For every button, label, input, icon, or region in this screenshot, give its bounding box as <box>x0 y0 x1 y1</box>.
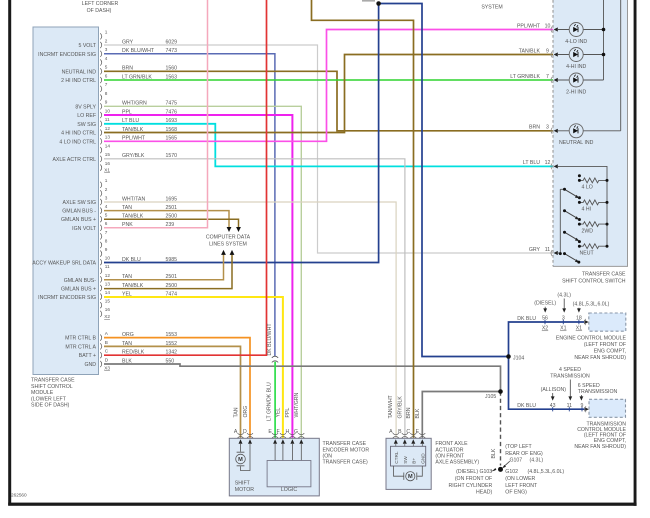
svg-text:SHIFT: SHIFT <box>235 480 251 486</box>
svg-text:ENGINE CONTROL MODULE: ENGINE CONTROL MODULE <box>556 336 627 342</box>
svg-text:4: 4 <box>105 204 108 209</box>
svg-text:PPL: PPL <box>285 408 291 418</box>
cut-off label at top left: (behind) LEFT CORNER OF DASH <box>82 1 119 14</box>
svg-text:16: 16 <box>105 307 111 312</box>
svg-text:A: A <box>389 429 393 435</box>
svg-text:MTR CTRL A: MTR CTRL A <box>65 344 96 350</box>
node J104 <box>506 354 511 359</box>
svg-text:8: 8 <box>105 91 108 96</box>
shift motor symbol <box>236 452 246 466</box>
svg-text:4: 4 <box>105 56 108 61</box>
svg-text:NEAR FAN SHROUD): NEAR FAN SHROUD) <box>574 355 626 361</box>
svg-text:(4.8L,5.3L,6.0L): (4.8L,5.3L,6.0L) <box>573 302 610 308</box>
wire TAN 2501 X2 pin12 to data link arrow <box>104 255 224 280</box>
wire TAN/BLK 2500 X2 pin5 to data link arrow <box>104 219 239 227</box>
wire BLK 550 X3 pinD to J105 <box>104 364 501 392</box>
svg-text:SW SIG: SW SIG <box>77 122 96 128</box>
rotary switch assembly <box>558 166 607 253</box>
svg-text:9: 9 <box>546 48 549 54</box>
svg-text:262560: 262560 <box>11 493 27 498</box>
wire DK BLU top run to J104 <box>379 4 509 357</box>
svg-text:2WD: 2WD <box>582 228 594 234</box>
svg-text:(LOWER LEFT: (LOWER LEFT <box>31 396 67 402</box>
indicator lamp 4-HI IND <box>566 48 586 70</box>
indicator lamp 2-HI IND <box>566 73 586 95</box>
svg-text:ORG: ORG <box>243 406 249 418</box>
svg-text:4 LO IND CTRL: 4 LO IND CTRL <box>59 139 96 145</box>
svg-text:3: 3 <box>105 47 108 52</box>
wire TAN/BLK 1568 pin12 to switch pin9 <box>104 55 553 133</box>
svg-text:E: E <box>416 429 420 435</box>
svg-text:GRY: GRY <box>529 247 541 253</box>
svg-text:IGN VOLT: IGN VOLT <box>72 226 97 232</box>
svg-text:D: D <box>243 429 247 435</box>
svg-text:REAR OF ENG): REAR OF ENG) <box>505 451 543 457</box>
svg-text:10: 10 <box>545 23 551 29</box>
svg-text:X2: X2 <box>104 314 110 319</box>
encoder motor pin letters <box>234 429 298 435</box>
svg-text:X3: X3 <box>104 365 110 370</box>
svg-text:5: 5 <box>105 65 108 70</box>
svg-text:GMLAN BUS +: GMLAN BUS + <box>61 217 96 223</box>
encoder motor entry arrows <box>239 439 304 443</box>
svg-text:ACTUATOR: ACTUATOR <box>435 447 463 453</box>
resistor 4 LO <box>578 174 609 190</box>
svg-text:4 HI: 4 HI <box>582 207 592 213</box>
module connector pin brackets and numbers <box>100 33 101 367</box>
switch side wire labels <box>510 23 550 253</box>
svg-text:TRANSFER CASE): TRANSFER CASE) <box>323 460 369 466</box>
svg-text:TRANSFER CASE: TRANSFER CASE <box>31 378 75 384</box>
wire BLK J105 to front axle actuator pin E <box>422 392 500 438</box>
svg-text:10: 10 <box>105 256 111 261</box>
svg-text:SHIFT CONTROL: SHIFT CONTROL <box>31 384 73 390</box>
svg-text:15: 15 <box>105 299 111 304</box>
actuator inner connector block <box>391 446 426 466</box>
svg-text:14: 14 <box>105 144 111 149</box>
svg-text:9: 9 <box>105 100 108 105</box>
svg-text:12: 12 <box>545 160 551 166</box>
svg-text:GND: GND <box>84 362 96 368</box>
vertical wire labels <box>233 323 497 459</box>
svg-text:7: 7 <box>105 82 108 87</box>
wire BLK dashed J105 to ground <box>500 392 502 466</box>
svg-text:LEFT FRONT: LEFT FRONT <box>505 483 538 489</box>
svg-text:X1: X1 <box>560 326 566 332</box>
svg-text:7: 7 <box>105 230 108 235</box>
svg-text:TAN: TAN <box>233 407 239 417</box>
wire WHT/GRN 7475 pin9 to encoder motor pin G <box>104 106 301 438</box>
svg-text:2: 2 <box>105 38 108 43</box>
front axle actuator entry arrows <box>394 439 425 443</box>
wire DK BLU J104 to engine control module <box>509 322 586 357</box>
svg-text:(4.8L,5.3L,6.0L): (4.8L,5.3L,6.0L) <box>528 469 565 475</box>
wire TAN 2501 X2 pin4 to data link arrow <box>104 211 229 228</box>
ground node G103/G102 dot <box>498 467 503 472</box>
node J105 <box>498 389 503 394</box>
svg-text:MODULE: MODULE <box>31 390 54 396</box>
wire GRY/BLK 1570 pin15 to front axle actuator pin B <box>104 159 405 438</box>
svg-text:FRONT AXLE: FRONT AXLE <box>435 441 468 447</box>
wire WHT/TAN 1695 X2 pin3 to front axle actuator pin A <box>104 202 396 438</box>
svg-text:9: 9 <box>105 247 108 252</box>
encoder motor internal leads <box>241 443 302 471</box>
svg-text:J104: J104 <box>513 355 524 361</box>
wire RED/BLK 1342 X3 pinC up to top cut <box>104 0 267 355</box>
svg-text:(ON LOWER: (ON LOWER <box>505 476 535 482</box>
svg-text:11: 11 <box>105 264 110 269</box>
svg-text:BLK: BLK <box>415 408 421 418</box>
svg-text:NEUTRAL IND: NEUTRAL IND <box>62 69 97 75</box>
svg-text:BLK: BLK <box>491 448 497 458</box>
wire TAN 1552 X3 pinB to encoder motor pin A <box>104 346 241 438</box>
wire colour labels and circuit numbers <box>122 39 177 364</box>
svg-text:G107: G107 <box>510 458 523 464</box>
TCM pin numbers <box>550 403 584 409</box>
svg-text:MOTOR: MOTOR <box>235 487 254 493</box>
svg-text:C: C <box>105 349 109 354</box>
svg-text:YEL: YEL <box>276 408 282 418</box>
svg-text:TRANSMISSION: TRANSMISSION <box>578 389 618 395</box>
svg-text:10: 10 <box>105 108 111 113</box>
svg-text:6 SPEED: 6 SPEED <box>578 383 600 389</box>
svg-text:M: M <box>238 457 243 463</box>
svg-text:NEUTRAL IND: NEUTRAL IND <box>559 140 594 146</box>
svg-text:1: 1 <box>105 30 108 35</box>
switch blade arrowheads <box>575 195 579 263</box>
svg-text:E: E <box>268 429 272 435</box>
svg-text:OF ENG): OF ENG) <box>505 490 527 496</box>
svg-text:LINES SYSTEM: LINES SYSTEM <box>209 241 247 247</box>
svg-text:6: 6 <box>105 221 108 226</box>
svg-text:1: 1 <box>105 178 108 183</box>
svg-text:14: 14 <box>105 290 111 295</box>
svg-text:NEAR FAN SHROUD): NEAR FAN SHROUD) <box>574 444 626 450</box>
svg-text:AXLE ASSEMBLY): AXLE ASSEMBLY) <box>435 460 479 466</box>
logic box <box>267 461 311 487</box>
svg-text:TRANSMISSION: TRANSMISSION <box>550 374 590 380</box>
svg-text:B: B <box>105 340 108 345</box>
svg-text:(ON FRONT OF: (ON FRONT OF <box>455 476 492 482</box>
svg-text:D: D <box>105 357 109 362</box>
svg-text:AXLE ACTR CTRL: AXLE ACTR CTRL <box>52 157 96 163</box>
svg-text:TAN/WHT: TAN/WHT <box>388 394 394 418</box>
switch blades <box>565 189 579 262</box>
svg-text:CTRL: CTRL <box>394 451 399 464</box>
svg-text:INCRMT ENCODER SIG: INCRMT ENCODER SIG <box>38 52 96 58</box>
cut text fragment above DK BLU junction <box>362 0 375 2</box>
resistor 2WD <box>578 218 609 234</box>
svg-text:GMLAN BUS -: GMLAN BUS - <box>62 209 96 215</box>
transfer case encoder motor box <box>229 438 369 496</box>
svg-text:X1: X1 <box>104 167 110 172</box>
svg-text:COMPUTER DATA: COMPUTER DATA <box>206 235 251 241</box>
front axle actuator box <box>386 438 479 489</box>
module name label below box <box>31 378 75 409</box>
svg-text:5 VOLT: 5 VOLT <box>79 43 97 49</box>
svg-text:X2: X2 <box>542 326 548 332</box>
wire TAN/BLK 2500 X2 pin13 to data link arrow <box>104 255 232 289</box>
svg-text:2-HI IND: 2-HI IND <box>566 89 586 95</box>
wire DK BLU J104 to transmission control module <box>509 357 586 410</box>
svg-text:4-HI IND: 4-HI IND <box>566 64 586 70</box>
svg-text:5: 5 <box>105 213 108 218</box>
svg-text:NEUT: NEUT <box>580 251 595 257</box>
svg-text:BATT +: BATT + <box>79 353 96 359</box>
svg-text:(DIESEL) G103: (DIESEL) G103 <box>456 469 492 475</box>
ECM pin numbers <box>542 316 582 332</box>
svg-text:4-LO IND: 4-LO IND <box>565 39 587 45</box>
ground arrow from G107 <box>504 461 510 466</box>
svg-text:(ON FRONT: (ON FRONT <box>435 453 465 459</box>
svg-text:3: 3 <box>546 125 549 131</box>
wire PPL/WHT 1565 pin13 to switch pin10 <box>104 30 553 142</box>
svg-text:2: 2 <box>105 187 108 192</box>
svg-text:(4.3L): (4.3L) <box>557 293 571 299</box>
svg-text:6: 6 <box>105 73 108 78</box>
svg-text:15: 15 <box>105 152 111 157</box>
svg-text:BRN: BRN <box>529 125 540 131</box>
svg-text:RIGHT CYLINDER: RIGHT CYLINDER <box>448 483 492 489</box>
ground arrow from G103 <box>493 468 497 471</box>
svg-text:A: A <box>234 429 238 435</box>
wire LT GRN/BLK 1563 pin6 to switch pin7 <box>104 79 553 81</box>
wire BRN feed from top cut to front axle actuator pin C <box>312 0 414 438</box>
svg-text:(ALLISON): (ALLISON) <box>541 387 567 393</box>
svg-text:B: B <box>398 429 402 435</box>
wire DK BLU 5985 X2 pin10 accy wakeup srl data <box>104 4 379 263</box>
svg-text:LO REF: LO REF <box>77 113 96 119</box>
svg-text:4 LO: 4 LO <box>582 185 593 191</box>
svg-text:GMLAN BUS-: GMLAN BUS- <box>64 278 97 284</box>
resistor NEUT <box>578 240 609 256</box>
svg-text:LOGIC: LOGIC <box>281 487 297 493</box>
svg-text:LT GRN/DK BLU: LT GRN/DK BLU <box>267 382 273 421</box>
svg-text:GMLAN BUS +: GMLAN BUS + <box>61 287 96 293</box>
svg-text:DK BLU: DK BLU <box>517 403 536 409</box>
svg-text:J105: J105 <box>485 394 496 400</box>
svg-text:GND: GND <box>421 453 426 464</box>
wire LT BLU 1693 pin11 to switch pin12 <box>104 124 553 167</box>
svg-text:TRANSFER CASE: TRANSFER CASE <box>582 272 626 278</box>
svg-text:M: M <box>408 474 413 480</box>
svg-text:SIDE OF DASH): SIDE OF DASH) <box>31 403 70 409</box>
svg-text:GRY/BLK: GRY/BLK <box>397 396 403 419</box>
svg-text:G102: G102 <box>505 469 518 475</box>
svg-text:PPL/WHT: PPL/WHT <box>517 23 541 29</box>
svg-text:8: 8 <box>105 238 108 243</box>
wire PPL 7476 pin10 to encoder motor pin H <box>104 115 292 438</box>
front axle actuator pin letters <box>389 429 420 435</box>
front axle actuator connector arcs <box>393 433 426 438</box>
transfer case shift control switch box <box>553 0 628 284</box>
svg-text:(4.3L): (4.3L) <box>530 458 544 464</box>
wire PNK 239 X2 pin6 up to top cut <box>104 0 208 228</box>
wire YEL 7474 X2 pin14 to encoder motor pin F <box>104 297 283 438</box>
wire GRY 6029 pin2 to switch pin11 <box>104 45 553 253</box>
svg-text:3: 3 <box>105 195 108 200</box>
svg-text:TAN/BLK: TAN/BLK <box>519 48 541 54</box>
indicator lamp NEUTRAL IND <box>559 124 594 146</box>
wire ORG 1553 X3 pinA to encoder motor pin D <box>104 338 250 438</box>
svg-text:H: H <box>285 429 289 435</box>
svg-text:ACCY WAKEUP SRL DATA: ACCY WAKEUP SRL DATA <box>32 261 96 267</box>
svg-text:11: 11 <box>545 247 550 253</box>
svg-text:X1: X1 <box>576 326 582 332</box>
engine control module box <box>556 313 627 361</box>
ECM entry arrow <box>584 320 588 324</box>
svg-text:12: 12 <box>105 126 111 131</box>
indicator lamp wires and symbols <box>558 0 621 131</box>
svg-text:TRANSFER CASE: TRANSFER CASE <box>323 441 367 447</box>
svg-text:2 HI IND CTRL: 2 HI IND CTRL <box>61 78 96 84</box>
svg-text:LT BLU: LT BLU <box>523 160 540 166</box>
svg-text:(DIESEL): (DIESEL) <box>534 301 556 307</box>
svg-text:LT GRN/BLK: LT GRN/BLK <box>510 74 540 80</box>
svg-text:AXLE SW SIG: AXLE SW SIG <box>63 200 96 206</box>
svg-text:OF DASH): OF DASH) <box>87 8 112 14</box>
wire BRN 1560 pin5 to neutral ind <box>104 71 553 131</box>
wire DK BLU/WHT 7473 pin3 down to inline connector <box>104 54 275 356</box>
wire LT GRN/DK BLU below inline connector to encoder motor pin E <box>274 362 276 438</box>
TCM entry arrow <box>584 407 588 411</box>
svg-text:13: 13 <box>105 281 111 286</box>
inline connector symbol on encoder sig wire <box>272 356 278 362</box>
svg-text:INCRMT ENCODER SIG: INCRMT ENCODER SIG <box>38 295 96 301</box>
encoder motor connector arcs <box>238 433 305 438</box>
computer data lines system label and arrows <box>206 227 251 255</box>
transmission control module box <box>574 399 626 450</box>
svg-text:MTR CTRL B: MTR CTRL B <box>65 336 96 342</box>
transfer case shift control module box <box>32 27 98 375</box>
svg-text:DK BLU: DK BLU <box>517 316 536 322</box>
svg-text:13: 13 <box>105 135 111 140</box>
svg-text:HEAD): HEAD) <box>476 490 492 496</box>
svg-text:DK BLU/WHT: DK BLU/WHT <box>267 323 273 356</box>
svg-text:12: 12 <box>105 273 111 278</box>
actuator motor symbol <box>394 466 423 481</box>
svg-text:4 HI IND CTRL: 4 HI IND CTRL <box>61 131 96 137</box>
svg-text:WHT/GRN: WHT/GRN <box>294 392 300 417</box>
svg-text:(ON: (ON <box>323 453 333 459</box>
svg-text:B+: B+ <box>412 458 417 464</box>
indicator lamp 4-LO IND <box>565 23 587 45</box>
resistor 4 HI <box>578 196 609 212</box>
svg-text:SW: SW <box>403 456 408 464</box>
svg-text:11: 11 <box>105 117 110 122</box>
svg-text:(LEFT FRONT OF: (LEFT FRONT OF <box>584 342 626 348</box>
svg-text:LEFT CORNER: LEFT CORNER <box>82 1 119 7</box>
svg-text:SHIFT CONTROL SWITCH: SHIFT CONTROL SWITCH <box>562 278 626 284</box>
svg-text:4 SPEED: 4 SPEED <box>559 367 581 373</box>
svg-text:ENCODER MOTOR: ENCODER MOTOR <box>323 447 370 453</box>
junction dot DK BLU top <box>376 1 381 6</box>
svg-text:ENG COMPT,: ENG COMPT, <box>594 348 626 354</box>
ECM engine variant labels <box>534 293 609 308</box>
svg-text:7: 7 <box>546 74 549 80</box>
svg-text:8V SPLY: 8V SPLY <box>75 104 96 110</box>
svg-text:SYSTEM: SYSTEM <box>481 5 502 11</box>
svg-text:(TOP LEFT: (TOP LEFT <box>505 444 532 450</box>
switch entry arrows <box>554 27 558 255</box>
svg-text:BRN: BRN <box>406 407 412 418</box>
svg-text:16: 16 <box>105 161 111 166</box>
